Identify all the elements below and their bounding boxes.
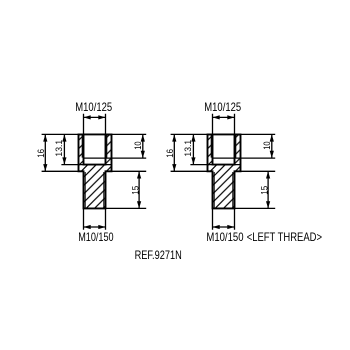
arrow left of dim M10/125 <box>213 115 220 119</box>
extension lines of bottom dimension M10/150 <box>84 208 106 229</box>
arrow bottom of dim 10 <box>141 151 145 158</box>
head bottom left extension line <box>42 170 79 172</box>
part body cross-section (socket head + threaded stud), hatched <box>79 134 112 208</box>
arrow top of dim 16 <box>43 134 47 141</box>
svg-text:M10/150: M10/150 <box>206 230 243 244</box>
head bottom right extension line for dim 15 <box>241 170 276 172</box>
part body cross-section (socket head + threaded stud), hatched <box>208 134 241 208</box>
arrow top of dim 15 <box>137 171 141 178</box>
arrow right of dim M10/125 <box>227 115 234 119</box>
svg-text:13.1: 13.1 <box>54 140 64 157</box>
dimension line M10/150 <box>84 226 106 228</box>
arrow bottom of dim 13.1 <box>62 157 66 164</box>
arrow right of dim M10/150 <box>98 225 105 229</box>
internal thread major-diameter thin lines <box>211 134 236 157</box>
svg-text:M10/125: M10/125 <box>204 100 241 114</box>
arrow bottom of dim 16 <box>43 164 47 171</box>
arrow top of dim 15 <box>266 171 270 178</box>
arrow left of dim M10/125 <box>84 115 91 119</box>
thread end line and extension for dim 10 <box>84 157 147 159</box>
thread end line and extension for dim 10 <box>213 157 276 159</box>
svg-text:15: 15 <box>260 186 270 195</box>
hole bottom extension lines for dim 13.1 <box>61 164 111 166</box>
head bottom left extension line <box>171 170 208 172</box>
extension lines of top dimension M10/125 <box>84 114 106 135</box>
dimension line 13.1 <box>192 134 194 164</box>
dimension line 13.1 <box>63 134 65 164</box>
svg-text:10: 10 <box>262 141 272 149</box>
svg-text:13.1: 13.1 <box>183 140 193 157</box>
external thread minor-diameter thin lines on stud <box>214 172 233 208</box>
head top edge with extension lines <box>42 133 147 135</box>
arrow top of dim 10 <box>270 134 274 141</box>
arrow right of dim M10/150 <box>227 225 234 229</box>
head bottom right extension line for dim 15 <box>112 170 147 172</box>
arrow bottom of dim 13.1 <box>191 157 195 164</box>
arrow bottom of dim 10 <box>270 151 274 158</box>
svg-text:M10/125: M10/125 <box>75 100 112 114</box>
arrow left of dim M10/150 <box>84 225 91 229</box>
arrow bottom of dim 15 <box>266 201 270 208</box>
hole bottom extension lines for dim 13.1 <box>190 164 240 166</box>
dimension line 16 <box>173 134 175 171</box>
svg-text:16: 16 <box>36 149 46 158</box>
dimension line 16 <box>44 134 46 171</box>
external thread minor-diameter thin lines on stud <box>85 172 104 208</box>
dimension line M10/125 <box>84 116 106 118</box>
svg-text:REF.9271N: REF.9271N <box>135 248 182 262</box>
arrow bottom of dim 16 <box>172 164 176 171</box>
svg-text:15: 15 <box>131 186 141 195</box>
dimension line 10 <box>142 134 144 158</box>
svg-text:M10/150: M10/150 <box>78 230 114 244</box>
arrow bottom of dim 15 <box>137 201 141 208</box>
dimension line 15 <box>138 171 140 208</box>
dimension line 15 <box>267 171 269 208</box>
arrow top of dim 16 <box>172 134 176 141</box>
extension lines of bottom dimension M10/150 <box>213 208 235 229</box>
arrow top of dim 10 <box>141 134 145 141</box>
stud bottom extension line for dim 15 <box>235 207 276 209</box>
svg-text:10: 10 <box>133 141 143 149</box>
svg-text:16: 16 <box>165 149 175 158</box>
internal thread major-diameter thin lines <box>82 134 107 157</box>
head top edge with extension lines <box>171 133 276 135</box>
dimension line M10/150 <box>213 226 235 228</box>
arrow top of dim 13.1 <box>62 134 66 141</box>
arrow left of dim M10/150 <box>213 225 220 229</box>
arrow right of dim M10/125 <box>98 115 105 119</box>
stud bottom extension line for dim 15 <box>106 207 147 209</box>
dimension line 10 <box>271 134 273 158</box>
extension lines of top dimension M10/125 <box>213 114 235 135</box>
arrow top of dim 13.1 <box>191 134 195 141</box>
svg-text:<LEFT THREAD>: <LEFT THREAD> <box>247 230 322 244</box>
dimension line M10/125 <box>213 116 235 118</box>
